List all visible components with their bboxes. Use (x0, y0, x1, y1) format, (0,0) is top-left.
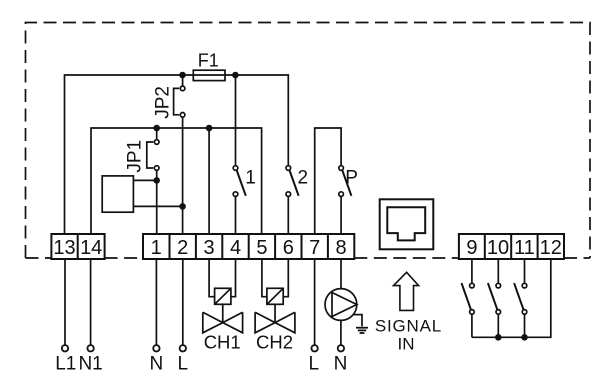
node: junction above terminal 3 (206, 125, 213, 132)
wire: fuse right across and down to switch 2 (235, 75, 288, 166)
terminal N (load) (338, 345, 344, 351)
wire: pump to ground (354, 315, 362, 327)
switch P (339, 166, 352, 234)
wire: junction down to terminal 3 (208, 128, 210, 234)
svg-text:9: 9 (466, 237, 477, 259)
svg-text:N: N (150, 354, 164, 375)
svg-text:2: 2 (177, 237, 188, 259)
terminal N1 (87, 345, 93, 351)
node: junction at fuse right (232, 72, 239, 79)
node: junction S11 on bus (521, 334, 528, 341)
terminal N (mains) (153, 345, 159, 351)
wire: terminal 11 down to switch S11 (524, 259, 526, 283)
svg-text:5: 5 (256, 237, 267, 259)
wire: JP2 down to terminal 2 (182, 117, 184, 234)
switch S9 (462, 283, 475, 337)
node: junction S10 on bus (495, 334, 502, 341)
svg-text:2: 2 (298, 168, 309, 189)
wire: terminal 13 down to L1 (64, 259, 66, 345)
wire: common bus to terminal 12 (472, 259, 551, 337)
signal-in arrow (394, 272, 419, 310)
wire: terminal 10 down to switch S10 (497, 259, 499, 283)
switch S10 (488, 283, 501, 337)
wire: terminal 7 down to L (load) (314, 259, 316, 345)
wire: terminal 6 to valve CH2 actuator (283, 259, 288, 297)
valve CH2 (255, 288, 295, 333)
svg-text:10: 10 (487, 237, 509, 259)
svg-text:1: 1 (151, 237, 162, 259)
wire: fuse right dot down to switch 1 (235, 75, 237, 166)
wire: terminal 3 to valve CH1 actuator (209, 259, 215, 297)
svg-text:8: 8 (336, 237, 347, 259)
svg-text:JP1: JP1 (124, 140, 145, 173)
wire: terminal 14 up and across to terminal 5 (91, 128, 262, 234)
svg-text:13: 13 (53, 237, 75, 259)
svg-text:11: 11 (514, 237, 535, 259)
fuse F1 (193, 70, 235, 80)
switch S11 (514, 283, 527, 337)
svg-text:6: 6 (283, 237, 294, 259)
svg-text:F1: F1 (198, 51, 219, 71)
node: junction above JP1 (153, 125, 160, 132)
svg-text:7: 7 (309, 237, 320, 259)
ground (356, 328, 368, 333)
svg-text:L: L (178, 354, 189, 375)
svg-text:P: P (345, 167, 358, 188)
node: junction at fuse left (179, 72, 186, 79)
wire: terminal 5 to valve CH2 actuator (262, 259, 267, 297)
node: junction at transformer bottom stub (179, 203, 186, 210)
switch 2 (286, 166, 299, 234)
connector J1 (RJ signal input) (380, 199, 434, 249)
svg-text:L1: L1 (55, 354, 76, 375)
terminal L (mains) (180, 345, 186, 351)
svg-text:1: 1 (245, 168, 256, 189)
svg-text:12: 12 (540, 237, 562, 259)
wire: terminal 9 down to switch S9 (471, 259, 473, 283)
svg-text:4: 4 (230, 237, 241, 259)
jumper JP2 (174, 75, 185, 117)
terminal block 1-8 (143, 234, 354, 259)
terminal block 9-12 (459, 234, 564, 259)
transformer box (102, 176, 182, 212)
enclosure boundary (dashed) (26, 23, 591, 259)
terminal L1 (62, 345, 68, 351)
wire: terminal 1 down to N (155, 259, 157, 345)
svg-text:N1: N1 (78, 354, 102, 375)
wire: terminal 7 up over to switch P (315, 128, 341, 234)
svg-text:3: 3 (204, 237, 215, 259)
svg-text:L: L (309, 354, 320, 375)
wire: terminal 14 down to N1 (90, 259, 92, 345)
jumper JP1 (147, 128, 159, 170)
wire: terminal 2 down to L (182, 259, 184, 345)
wire: terminal 4 to valve CH1 actuator (231, 259, 236, 297)
wire: terminal 8 down to pump (340, 259, 342, 289)
valve CH1 (203, 288, 243, 333)
terminal L (load) (311, 345, 317, 351)
svg-text:CH1: CH1 (204, 332, 241, 353)
svg-text:SIGNAL: SIGNAL (375, 317, 442, 336)
wire: terminal 13 up and across top to fuse (65, 75, 194, 234)
node: junction at transformer top stub (153, 177, 160, 184)
switch 1 (233, 166, 246, 234)
svg-text:14: 14 (80, 237, 102, 259)
wire: JP1 down to terminal 1 (156, 170, 158, 234)
svg-text:CH2: CH2 (256, 332, 293, 353)
svg-text:N: N (334, 354, 348, 375)
svg-text:JP2: JP2 (152, 86, 173, 119)
pump M1 (325, 289, 357, 321)
terminal block 13-14 (51, 234, 104, 259)
svg-text:IN: IN (398, 335, 415, 354)
wire: pump to N (load) (340, 320, 342, 345)
